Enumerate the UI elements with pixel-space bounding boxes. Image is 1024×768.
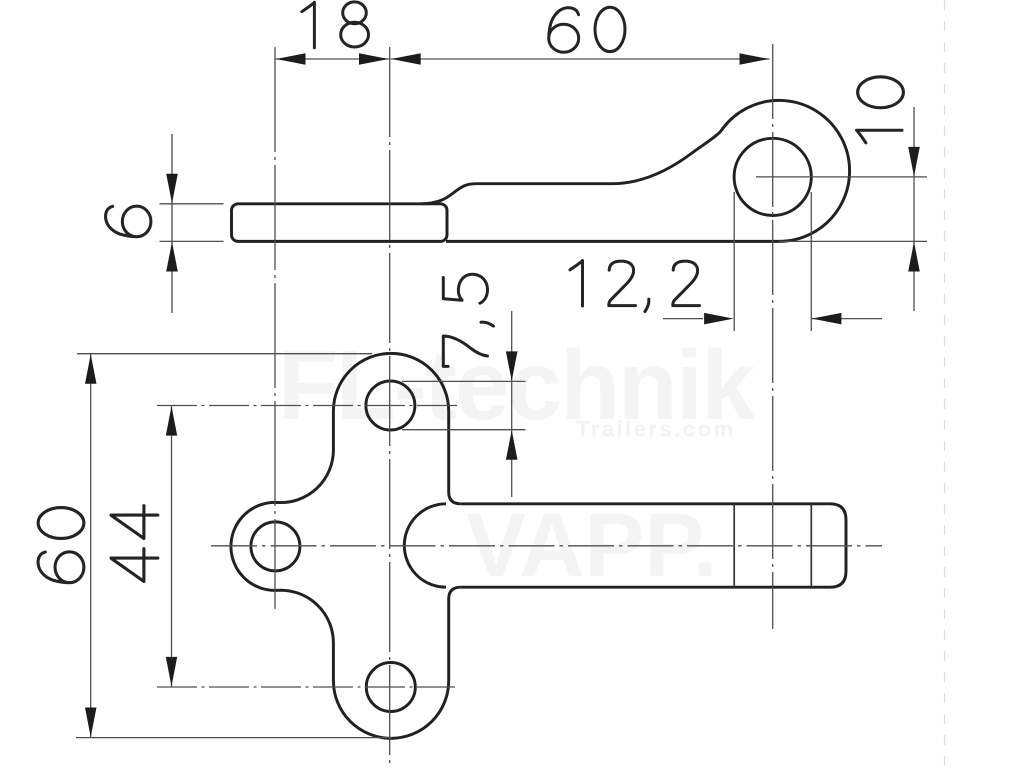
front view: bottom hole — [366, 663, 415, 712]
front view: projected hole edge lines on bar — [733, 504, 735, 587]
front view: handle bar with rounded right end — [461, 504, 846, 587]
centerline: bottom hole horizontal / 44-dim lower extension — [157, 686, 455, 688]
dimension 18: line and arrows — [275, 58, 390, 60]
centerline: left hole axis / 18-dim left extension (x=275) — [274, 47, 276, 609]
centerline: horizontal axis of front view (y=545.8) — [211, 545, 882, 547]
dimension 60 left: extension lines — [77, 353, 372, 355]
dimension 60 top: line and arrows — [391, 58, 770, 60]
centerline: top hole horizontal / 44-dim upper extension — [157, 405, 457, 407]
side view: main body outline with round lug end — [421, 100, 850, 241]
dimension 12,2: dim line with outside arrows — [663, 318, 703, 320]
dimension 44: rotated text — [111, 506, 158, 582]
dimension 60 left: dim line, inside arrows — [90, 354, 92, 738]
front view: left hole — [251, 522, 300, 571]
side view: flat bar (left tab) — [232, 204, 448, 242]
dimension 7,5: dim line with outside arrows — [511, 311, 513, 497]
dimension 7,5: rotated text — [443, 274, 493, 366]
dimension 10: rotated text — [857, 77, 904, 143]
dimension 12,2: extension lines from hole edges — [733, 192, 735, 331]
centerline: lug hole horizontal (y=176.9) — [756, 176, 927, 178]
dimension 12,2: text — [570, 261, 700, 312]
dimension 18: text — [302, 2, 369, 48]
side view: lug hole (d12.2) — [734, 138, 811, 215]
dimension 6: dim line with outside arrows — [171, 134, 173, 313]
dimension 7,5: extension lines tangent to top hole — [402, 380, 526, 382]
dimension 6: rotated text — [106, 206, 151, 237]
centerline: lug hole axis (x=772.7) — [772, 44, 774, 629]
front view: rounded left cap of handle bar — [404, 504, 446, 587]
front view: clover plate outline — [231, 353, 461, 738]
dimension 10: dim line with outside arrows — [913, 107, 915, 311]
dimension 6: extension lines — [160, 203, 224, 205]
dimension 10: extension of bottom edge — [779, 240, 927, 242]
centerline: plate axis / 18-dim right extension (x=389.5) — [389, 47, 391, 766]
dimension 44: dim line, inside arrows — [171, 406, 173, 688]
faint fold line right margin — [944, 0, 946, 768]
dimension 60 top: text — [549, 7, 625, 52]
svg-text:Trailers.com: Trailers.com — [576, 417, 736, 442]
dimension 60 left: rotated text — [38, 508, 84, 583]
front view: top hole d7.5 — [366, 381, 415, 430]
